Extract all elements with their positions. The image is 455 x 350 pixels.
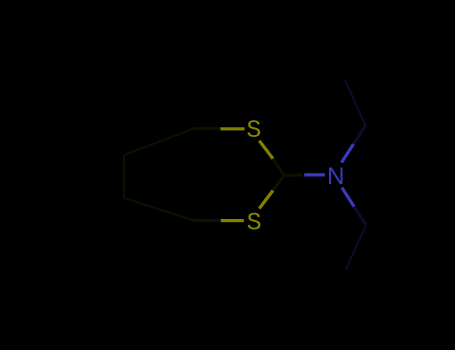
wire: dark C-half of bond S1-C8 bbox=[194, 127, 220, 130]
wire: blue N-half of bond CH-N (horizontal) bbox=[304, 173, 325, 176]
wire: blue N-half of bond N-CH2 bottom bbox=[342, 188, 354, 207]
wire: dark C-half of bond S3-CH bbox=[273, 176, 284, 191]
wire: dark C-half of bond S1-CH bbox=[273, 159, 284, 176]
wire: dark C-half of bond N-CH2 bottom bbox=[354, 207, 366, 226]
wire: dark C-half of bond CH-N bbox=[284, 174, 303, 178]
wire: dark ring bond C7-C6 bbox=[123, 155, 125, 198]
wire: yellow S-half of bond S3-C5 (bottom stub) bbox=[221, 219, 244, 222]
svg-text:S: S bbox=[247, 209, 262, 238]
wire: dark bond CH2-CH3 top ethyl bbox=[345, 80, 366, 126]
wire: dark ring bond C8-C7 bbox=[124, 129, 194, 156]
svg-text:N: N bbox=[327, 163, 344, 190]
wire: dark ring bond C6-C5 bbox=[124, 198, 194, 221]
wire: yellow S-half of bond S1-CH (top diagonal) bbox=[259, 141, 273, 159]
wire: dark C-half of bond N-CH2 top bbox=[354, 126, 366, 145]
wire: dark C-half of bond C5-S3 bbox=[194, 219, 221, 222]
wire: yellow S-half of bond S1-C8 (top stub) bbox=[220, 127, 244, 130]
wire: yellow S-half of bond S3-CH (bottom diagonal) bbox=[259, 191, 273, 209]
wire: dark bond CH2-CH3 bottom ethyl bbox=[346, 225, 367, 270]
svg-text:S: S bbox=[246, 116, 261, 145]
wire: blue N-half of bond N-CH2 top bbox=[342, 144, 354, 163]
